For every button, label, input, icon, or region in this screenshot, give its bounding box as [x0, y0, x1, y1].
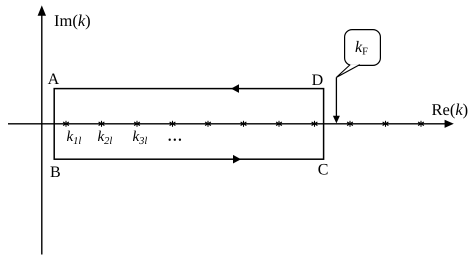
- pole mark 6: [241, 121, 247, 127]
- contour rectangle ABCD: [54, 89, 323, 160]
- pole mark 11: [418, 121, 424, 127]
- pole mark 3: [134, 121, 140, 127]
- pole mark 9: [347, 121, 353, 127]
- contour arrow on top edge (pointing left, D to A): [231, 84, 239, 93]
- Re axis (horizontal): [8, 123, 447, 125]
- Im axis (vertical): [41, 13, 43, 255]
- pole mark 1: [63, 121, 69, 127]
- pole mark 10: [383, 121, 389, 127]
- svg-text:B: B: [50, 164, 61, 181]
- ellipsis dots: [169, 139, 182, 141]
- Re axis arrowhead: [445, 120, 454, 128]
- pole mark 2: [99, 121, 105, 127]
- contour arrow on bottom edge (pointing right, B to C): [233, 155, 241, 164]
- kF pointer arrowhead: [333, 116, 340, 124]
- kF pointer arrow (vertical, down to axis): [335, 77, 337, 117]
- svg-text:C: C: [318, 161, 329, 178]
- svg-text:A: A: [48, 71, 60, 88]
- callout tail: [336, 65, 359, 78]
- svg-text:Im(k): Im(k): [54, 11, 91, 30]
- pole mark 5: [205, 121, 211, 127]
- callout bubble for kF: [345, 30, 381, 66]
- Im axis arrowhead: [38, 5, 46, 15]
- pole mark 7: [276, 121, 282, 127]
- pole mark 8: [312, 121, 318, 127]
- svg-text:D: D: [312, 72, 324, 89]
- pole marks (asterisks) on real axis: [63, 121, 424, 127]
- pole mark 4: [170, 121, 176, 127]
- svg-text:Re(k): Re(k): [432, 100, 469, 119]
